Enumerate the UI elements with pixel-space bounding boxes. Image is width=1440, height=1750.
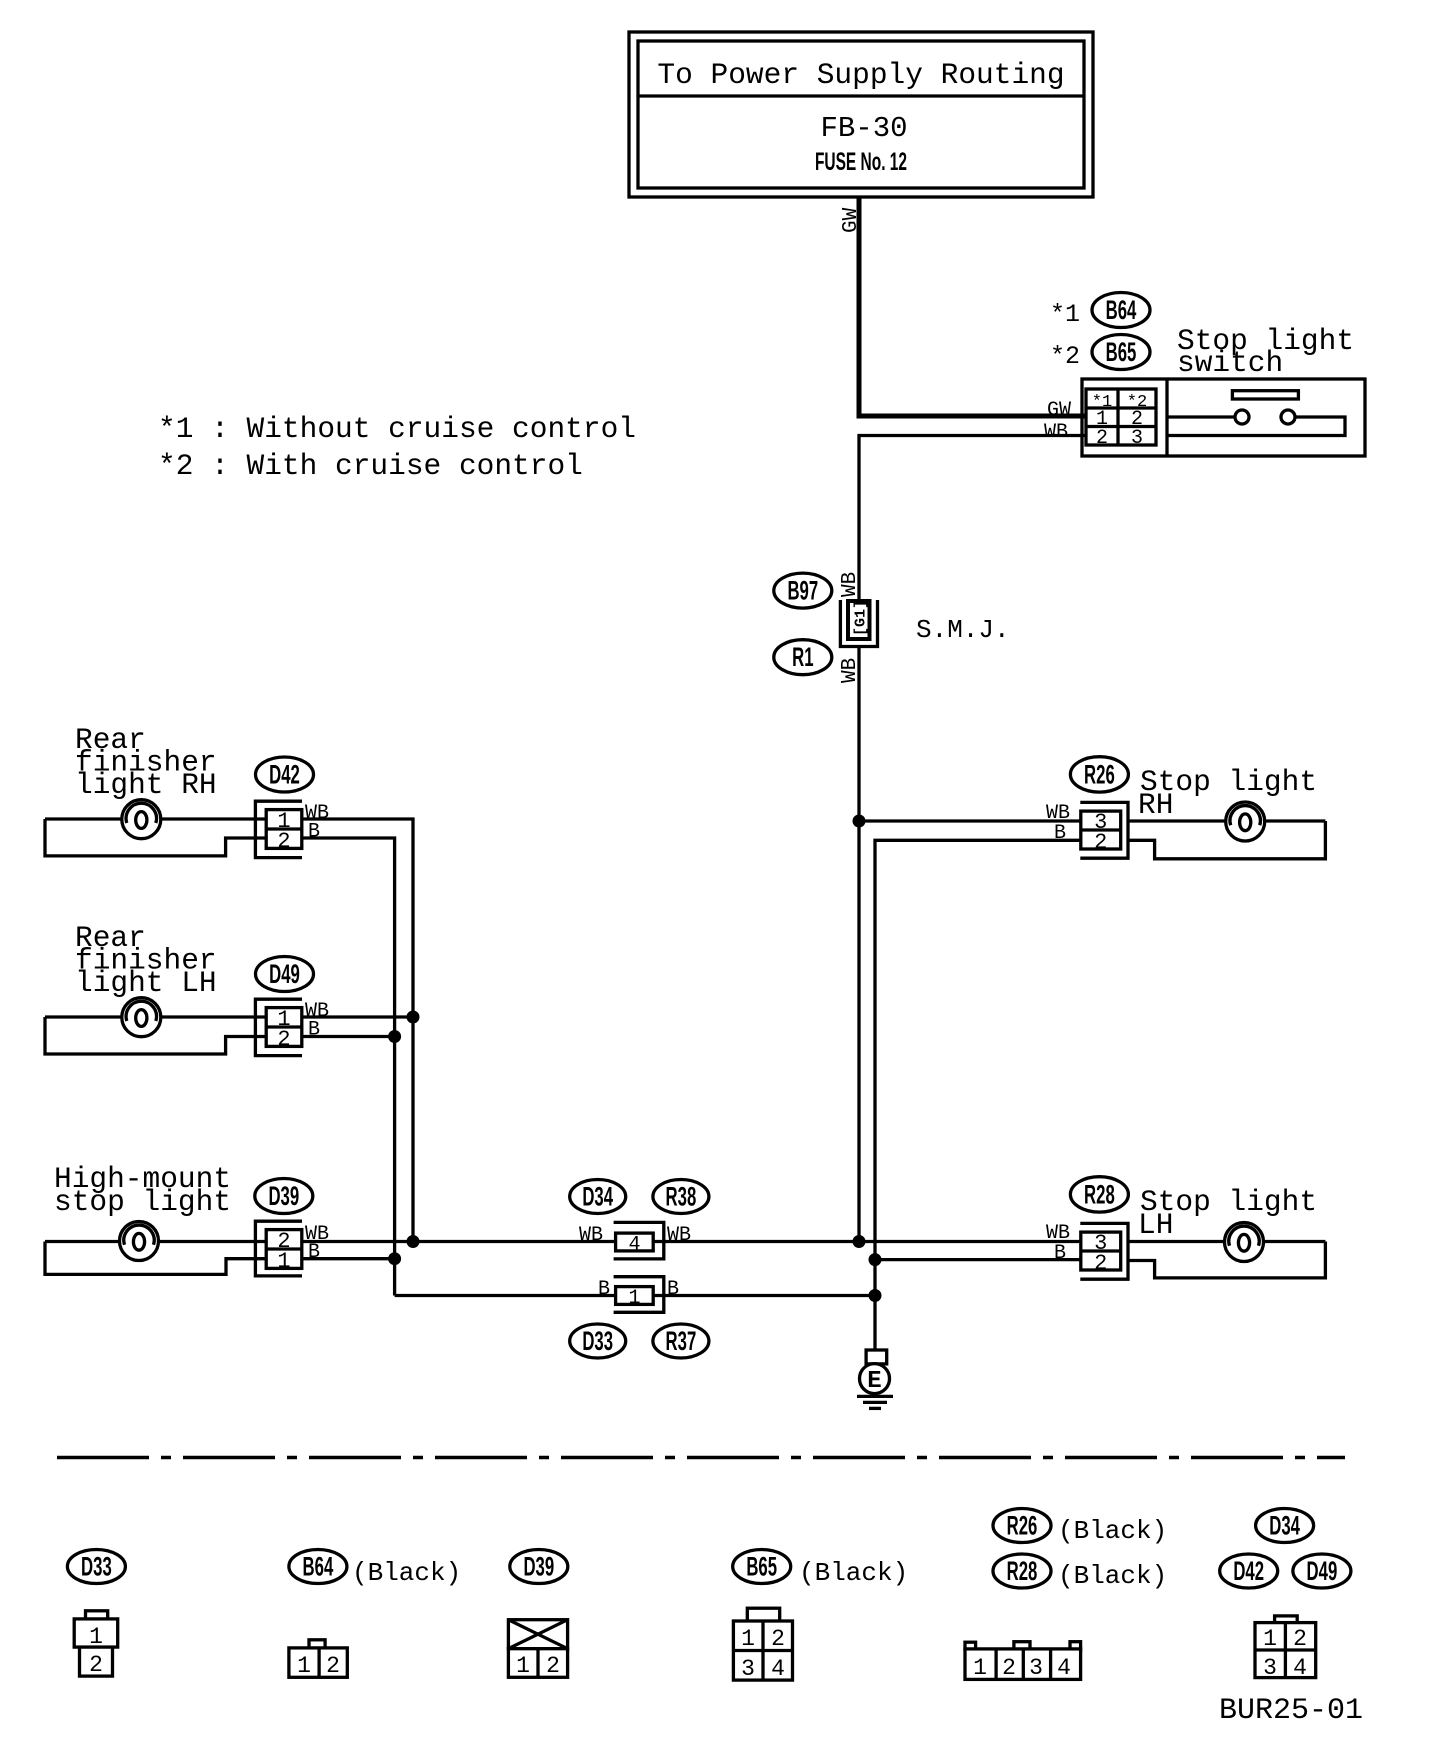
svg-text:WB: WB [579,1224,603,1247]
svg-text:4: 4 [1293,1655,1307,1681]
connector oval B65 [1092,335,1150,370]
svg-text:2: 2 [1096,427,1108,450]
switch contact circle 1 [1235,410,1249,424]
node D39 B junction [388,1252,401,1265]
node trunk end at stop light LH row [853,1235,866,1248]
connector D42 bracket [255,801,302,857]
svg-text:2: 2 [277,1027,290,1052]
stop light switch divider [1165,379,1168,456]
svg-text:D39: D39 [523,1551,554,1581]
legend connector D34/D42/D49 pinout [1255,1616,1316,1681]
bulb stop light LH [1225,1223,1264,1262]
svg-text:(Black): (Black) [1058,1516,1167,1546]
connector oval R37 [653,1324,709,1358]
wire rear finisher LH feed [45,1015,266,1018]
connector oval D39 [255,1179,313,1214]
svg-text:2: 2 [326,1653,340,1679]
legend oval D42 [1220,1554,1278,1588]
SMJ bracket [840,600,877,647]
svg-text:D49: D49 [269,959,300,989]
svg-text:WB: WB [1044,421,1068,444]
svg-text:GW: GW [1047,399,1071,422]
power supply routing box inner frame [638,41,1084,188]
legend connector D33 pinout [74,1611,118,1678]
legend oval R28 [993,1554,1051,1588]
svg-text:WB: WB [839,658,862,683]
inline connector D33/R37 cell 1 [616,1287,654,1305]
svg-text:R1: R1 [792,642,813,672]
wire rear finisher LH return loop [45,1017,266,1054]
svg-text:1: 1 [741,1626,755,1652]
legend oval D33 [67,1550,125,1584]
wire B from vertical corner through D33 to ground vertical [395,1294,875,1297]
svg-text:B97: B97 [787,576,818,606]
svg-text:S.M.J.: S.M.J. [916,615,1010,645]
svg-text:(Black): (Black) [799,1558,908,1588]
wire WB from D42 to vertical [302,819,413,1242]
ground circle E [860,1364,890,1394]
wire WB below SMJ to stop light RH junction [857,647,860,822]
svg-text:2: 2 [277,829,290,854]
connector oval D34 [570,1180,626,1214]
svg-text:*1 : Without cruise control: *1 : Without cruise control [158,412,636,446]
connector D49 cells [266,1008,302,1047]
svg-text:B: B [308,821,320,844]
switch contact circle 2 [1281,410,1295,424]
wire stop light RH return loop [1128,821,1325,859]
connector R28 cells [1081,1232,1121,1270]
connector R26 bracket [1080,802,1128,858]
legend connector B65 pinout [733,1608,792,1682]
svg-text:B65: B65 [746,1551,777,1581]
inline connector D34/R38 bracket [614,1222,664,1259]
svg-text:1: 1 [297,1653,311,1679]
svg-text:WB: WB [667,1224,691,1247]
wire stop light LH feed [1128,1240,1325,1243]
svg-text:D39: D39 [268,1181,299,1211]
stop light switch body [1082,379,1365,456]
svg-text:3: 3 [741,1656,755,1682]
svg-text:3: 3 [1263,1655,1277,1681]
connector oval R38 [653,1180,709,1214]
connector oval B64 [1092,293,1150,328]
svg-text:RH: RH [1138,788,1173,822]
svg-text:2: 2 [1094,830,1107,855]
bulb rear finisher light RH [122,800,161,839]
svg-text:2: 2 [89,1652,103,1678]
connector oval D49 [256,957,314,992]
svg-text:[G1]: [G1] [853,600,870,636]
legend connector B64 pinout [289,1640,347,1679]
svg-text:D49: D49 [1307,1556,1338,1586]
svg-text:D42: D42 [269,759,300,789]
connector oval D42 [256,757,314,792]
switch internal contact wire [1167,415,1235,418]
svg-text:D34: D34 [1269,1510,1300,1540]
legend oval R26 [993,1509,1051,1543]
inline connector D34/R38 cell 4 [616,1233,654,1251]
svg-text:R38: R38 [666,1181,697,1211]
switch actuator bar [1232,391,1298,399]
svg-text:B64: B64 [1106,295,1137,325]
svg-text:BUR25-01: BUR25-01 [1219,1694,1363,1728]
svg-text:*1: *1 [1050,300,1080,329]
svg-text:*2: *2 [1050,342,1080,371]
wire B from D42 to vertical [302,838,395,1296]
svg-text:light LH: light LH [75,966,217,1000]
connector oval D33 [570,1324,626,1358]
wire GW from fuse box to stop light switch [859,197,1086,416]
legend oval B64 [289,1550,347,1584]
wire B from D39 to vertical [302,1257,395,1260]
svg-text:3: 3 [1131,427,1143,450]
svg-text:LH: LH [1138,1208,1173,1242]
svg-text:WB: WB [839,572,862,597]
node trunk junction at stop light RH [853,815,866,828]
node WB vertical end junction [407,1235,420,1248]
connector oval B97 [774,573,832,608]
svg-text:4: 4 [771,1656,785,1682]
legend oval D34 [1256,1509,1314,1543]
connector D39 cells [266,1230,302,1269]
svg-text:E: E [867,1368,881,1395]
node ground rail junction with stop light LH B [869,1253,882,1266]
svg-text:1: 1 [277,1249,290,1274]
SMJ inner box G1 [848,601,870,639]
svg-text:4: 4 [1057,1655,1071,1681]
power supply routing box outer frame [629,32,1093,197]
svg-text:To Power Supply Routing: To Power Supply Routing [657,58,1064,92]
svg-text:switch: switch [1177,346,1283,380]
svg-text:D33: D33 [582,1326,613,1356]
ground hatch lines [857,1395,893,1398]
svg-text:R26: R26 [1007,1510,1038,1540]
svg-text:FUSE No. 12: FUSE No. 12 [815,148,907,176]
inline connector D33/R37 bracket [614,1277,664,1313]
svg-text:2: 2 [1002,1655,1016,1681]
svg-text:B64: B64 [303,1551,334,1581]
wire WB from D49 to vertical [302,1015,413,1018]
svg-text:R28: R28 [1007,1556,1038,1586]
svg-text:B: B [667,1278,679,1301]
node D49 B junction [388,1030,401,1043]
svg-text:(Black): (Black) [1058,1561,1167,1591]
svg-text:B: B [1054,1242,1066,1265]
connector oval R26 [1070,757,1128,792]
svg-text:3: 3 [1029,1655,1043,1681]
svg-text:R26: R26 [1084,759,1115,789]
bulb rear finisher light LH [122,998,161,1037]
svg-text:FB-30: FB-30 [820,112,907,145]
wire WB from D39 to stop light LH [302,1240,1081,1243]
svg-text:2: 2 [1094,1251,1107,1276]
legend oval D39 [510,1550,568,1584]
legend connector R26/R28 pinout [965,1642,1081,1681]
ground terminal block [866,1350,887,1364]
svg-text:B: B [308,1241,320,1264]
legend separator dash-dot line [57,1456,1345,1460]
wire WB from switch to SMJ [859,436,1086,602]
wire B from stop light RH down ground rail [875,840,1081,1350]
svg-text:2: 2 [1293,1626,1307,1652]
wire high-mount feed [45,1240,266,1243]
wire high-mount return loop [45,1242,266,1275]
svg-text:*2 : With cruise control: *2 : With cruise control [158,449,583,483]
legend connector D39 pinout [508,1620,567,1679]
power supply routing box divider [638,94,1084,97]
svg-text:D33: D33 [81,1551,112,1581]
wire B from D49 to vertical [302,1035,395,1038]
svg-text:B65: B65 [1106,337,1137,367]
node D49 WB junction [407,1011,420,1024]
wire stop light RH feed [1128,819,1325,822]
svg-text:(Black): (Black) [352,1558,461,1588]
svg-text:1: 1 [628,1287,640,1310]
connector D42 cells [266,810,302,849]
switch internal return wire [1167,417,1345,436]
svg-text:1: 1 [973,1655,987,1681]
bulb stop light RH [1226,802,1265,841]
svg-text:1: 1 [1263,1626,1277,1652]
bulb high-mount stop light [120,1222,159,1261]
connector oval R1 [774,640,832,675]
connector R26 cells [1081,811,1121,849]
svg-text:B: B [1054,822,1066,845]
svg-text:2: 2 [546,1653,560,1679]
legend oval D49 [1293,1554,1351,1588]
svg-text:GW: GW [840,207,863,233]
svg-text:R28: R28 [1084,1179,1115,1209]
wire stop light LH return loop [1128,1242,1325,1278]
wire rear finisher RH feed [45,817,266,820]
svg-text:D42: D42 [1233,1556,1264,1586]
svg-text:D34: D34 [582,1181,613,1211]
connector R28 bracket [1080,1223,1128,1279]
legend oval B65 [733,1550,791,1584]
switch connector grid B64/B65 [1086,389,1156,445]
svg-text:2: 2 [771,1626,785,1652]
wire B from stop light LH to ground rail [875,1258,1081,1261]
svg-text:stop light: stop light [54,1185,231,1219]
connector D39 bracket [255,1221,302,1276]
wire WB trunk from junction down to stop light LH row [857,821,860,1242]
svg-text:R37: R37 [666,1326,697,1356]
connector oval R28 [1070,1177,1128,1212]
svg-text:B: B [598,1278,610,1301]
node ground rail junction with D33 B line [869,1289,882,1302]
svg-text:1: 1 [516,1653,530,1679]
connector D49 bracket [255,999,302,1055]
svg-text:light RH: light RH [75,768,217,802]
wire rear finisher RH return loop [45,819,266,856]
svg-text:4: 4 [628,1234,640,1257]
wire WB to stop light RH [859,819,1081,822]
